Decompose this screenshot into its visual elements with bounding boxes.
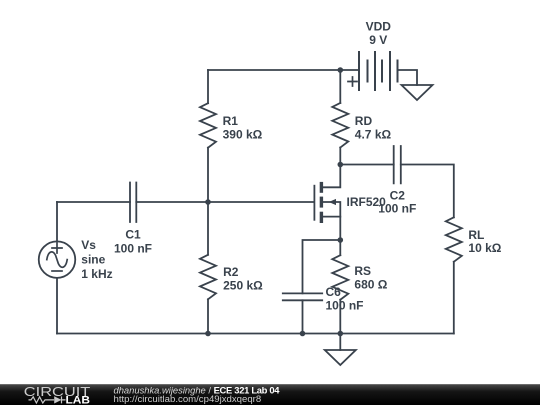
svg-text:RS: RS <box>354 264 371 278</box>
svg-text:http://circuitlab.com/cp49jxdx: http://circuitlab.com/cp49jxdxqeqr8 <box>114 394 262 405</box>
svg-text:4.7 kΩ: 4.7 kΩ <box>355 128 392 142</box>
svg-text:VDD: VDD <box>366 19 392 33</box>
svg-text:R2: R2 <box>223 265 239 279</box>
svg-text:100 nF: 100 nF <box>326 298 364 312</box>
svg-text:C2: C2 <box>390 188 406 202</box>
svg-text:R1: R1 <box>223 114 239 128</box>
svg-text:C6: C6 <box>326 285 342 299</box>
svg-text:10 kΩ: 10 kΩ <box>468 241 501 255</box>
svg-text:250 kΩ: 250 kΩ <box>223 279 263 293</box>
svg-text:680 Ω: 680 Ω <box>354 278 387 292</box>
svg-text:sine: sine <box>81 253 105 267</box>
svg-text:1 kHz: 1 kHz <box>81 267 112 281</box>
svg-text:RL: RL <box>468 228 484 242</box>
svg-text:LAB: LAB <box>66 395 91 405</box>
svg-text:Vs: Vs <box>81 238 96 252</box>
svg-text:RD: RD <box>355 114 373 128</box>
svg-text:C1: C1 <box>125 228 141 242</box>
svg-text:9 V: 9 V <box>369 33 387 47</box>
svg-text:390 kΩ: 390 kΩ <box>223 128 263 142</box>
svg-text:IRF520: IRF520 <box>347 195 387 209</box>
svg-text:100 nF: 100 nF <box>114 241 152 255</box>
